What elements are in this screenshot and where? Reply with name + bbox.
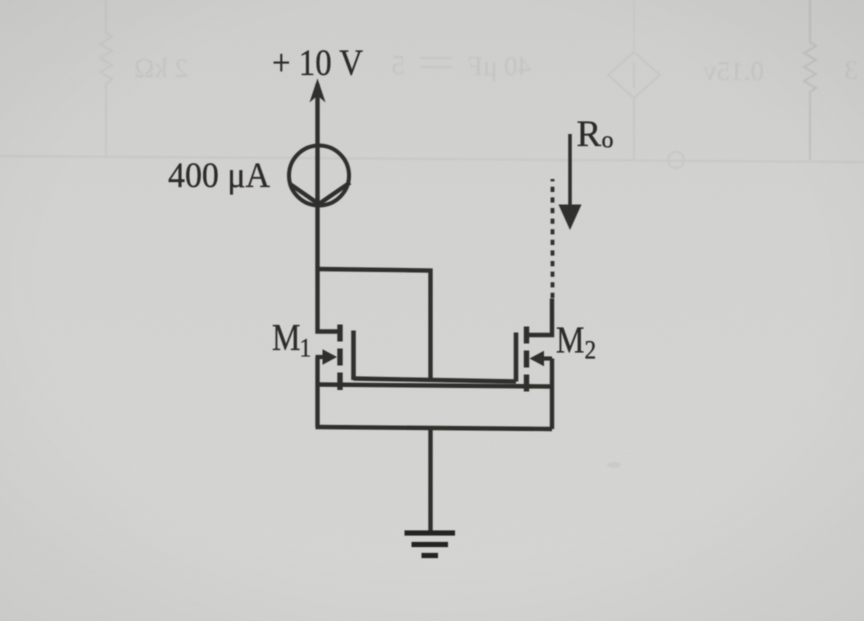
main schematic [289,80,582,556]
M2 drain contact bar [524,327,529,344]
wire: bottom rail to ground node [316,427,553,429]
M2 bulk arrow head [530,351,545,366]
M1 bulk arrow head [323,349,338,364]
current source I=400uA circle [289,146,349,206]
ghost diamond arrow [633,62,635,88]
wire: M1 bulk/source vertical down to bottom rail [315,357,319,427]
M1 body contact bar [337,349,342,366]
ghost bleed-through layer [0,0,864,168]
dashed probe line above M2 drain [551,179,555,298]
wire: gate rail M1 gate to M2 gate [354,379,517,382]
ground [405,533,456,556]
ghost capacitor plates [420,58,452,67]
wire: gate feedback from drain node to gate rail [316,269,431,380]
wire: source rail M1 to M2 [316,385,553,387]
M1 gate bar [351,331,356,381]
ghost node circle [668,152,684,168]
Ro test-current arrow head [559,205,582,231]
ground bar bottom [422,553,439,558]
M1 bulk lead [316,355,328,359]
ghost dependent source diamond [608,52,660,98]
Ro test-current arrow shaft [568,134,572,208]
wire: ground stem [428,428,432,531]
M1 drain contact bar [337,325,342,342]
current source arrow chevron [290,183,350,205]
ghost wire above diamond [633,0,635,52]
ground bar middle [412,542,449,547]
M2 bulk lead [541,356,552,360]
M2 source contact bar [524,375,529,392]
M2 gate bar [514,333,519,382]
transistor M2 [516,327,552,392]
photo grain [0,0,1,1]
ghost resistor right [804,0,816,160]
ground bar top [405,530,456,535]
ghost resistor left [100,0,112,157]
M2 body contact bar [524,351,529,368]
dust speck [607,462,621,468]
ghost wire horizontal mid [0,156,864,162]
ghost wire below diamond [633,98,635,160]
transistor M1 [316,325,354,391]
power arrow to +10V [311,80,325,101]
M1 source contact bar [337,373,342,391]
wire: M2 drain elbow up [529,299,552,336]
ghost bleed-through text [134,50,858,468]
wire: +10V supply down through current source to M1 drain elbow [318,84,341,332]
wire: M2 bulk/source vertical down to bottom rail [550,359,554,430]
